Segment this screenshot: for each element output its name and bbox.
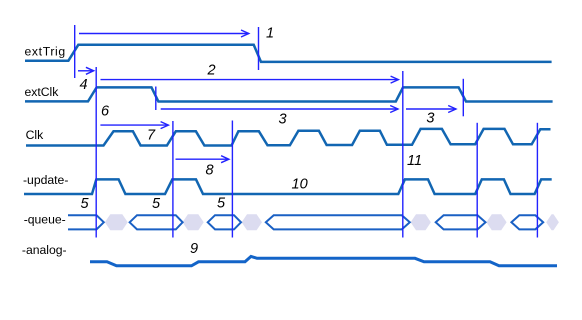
svg-text:Clk: Clk [26,128,45,142]
svg-text:7: 7 [147,128,156,144]
svg-text:5: 5 [81,196,90,212]
svg-text:4: 4 [80,77,88,93]
svg-text:extClk: extClk [25,85,60,99]
svg-text:11: 11 [407,153,422,169]
svg-text:8: 8 [206,163,214,179]
svg-text:extTrig: extTrig [25,45,66,59]
svg-text:5: 5 [152,196,161,212]
svg-text:-update-: -update- [23,173,68,187]
svg-text:9: 9 [190,241,198,257]
svg-text:6: 6 [101,103,110,119]
svg-text:3: 3 [426,111,434,127]
svg-text:-analog-: -analog- [22,243,67,257]
svg-text:5: 5 [217,196,226,212]
svg-text:10: 10 [292,177,308,193]
svg-text:-queue-: -queue- [24,213,66,227]
svg-text:1: 1 [266,26,274,42]
svg-text:3: 3 [279,112,287,128]
svg-text:2: 2 [207,63,216,79]
